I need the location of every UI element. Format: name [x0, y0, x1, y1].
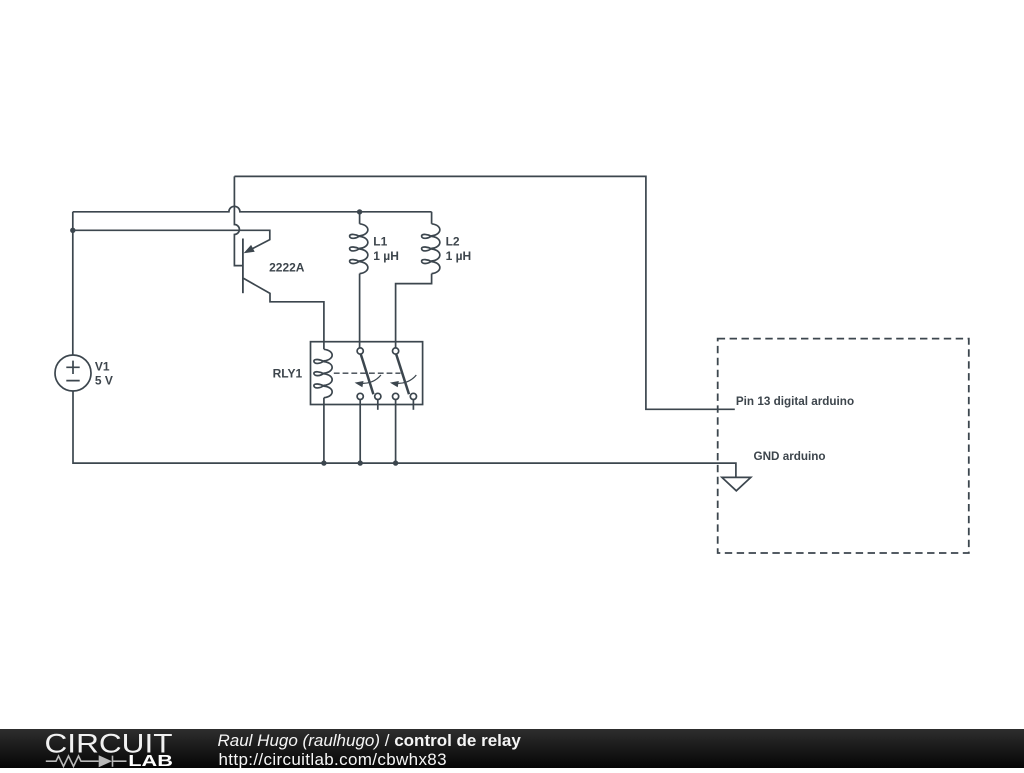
- wire relay throw 2 to ground rail: [395, 400, 397, 464]
- relay blade 1: [361, 354, 374, 394]
- wire relay coil bottom to ground rail: [323, 398, 325, 463]
- relay switch arrow 1: [360, 375, 381, 383]
- stub relay throw 1b: [377, 400, 379, 410]
- svg-text:Pin 13 digital arduino: Pin 13 digital arduino: [736, 395, 854, 408]
- svg-text:2222A: 2222A: [269, 260, 305, 274]
- junction node throw1 gnd: [358, 460, 363, 465]
- relay pole circle sw1: [357, 348, 363, 354]
- relay arrowhead 1: [355, 381, 364, 387]
- junction node coil gnd: [321, 460, 326, 465]
- junction node throw2 gnd: [393, 460, 398, 465]
- wire +5V rail with hop over base drop: [73, 206, 432, 211]
- relay RLY1 box: [311, 342, 423, 405]
- wire emitter from +5V: [73, 230, 270, 251]
- svg-text:L1: L1: [373, 235, 387, 249]
- svg-text:LAB: LAB: [128, 753, 173, 768]
- svg-text:http://circuitlab.com/cbwhx83: http://circuitlab.com/cbwhx83: [219, 750, 447, 768]
- junction node V1/+5V: [70, 228, 75, 233]
- logo diode triangle: [99, 755, 112, 767]
- relay actuation dashed line: [334, 372, 401, 374]
- stub relay throw 2b: [412, 400, 414, 410]
- relay arrowhead 2: [390, 381, 399, 387]
- svg-text:1 µH: 1 µH: [446, 249, 472, 263]
- wire net base: top wire to Pin 13 arduino: [234, 176, 734, 409]
- emitter arrowhead: [244, 245, 255, 253]
- svg-text:Raul Hugo (raulhugo) / control: Raul Hugo (raulhugo) / control de relay: [218, 731, 522, 750]
- svg-text:GND arduino: GND arduino: [754, 450, 826, 463]
- relay coil RLY1: [314, 349, 332, 397]
- relay blade 2: [396, 354, 409, 394]
- svg-text:RLY1: RLY1: [273, 367, 303, 381]
- transistor Q1 base bar: [242, 239, 244, 294]
- wire base drop with hop over emitter wire: [234, 176, 243, 265]
- junction node L1 top: [357, 209, 362, 214]
- inductor L2: [431, 212, 433, 224]
- svg-text:5 V: 5 V: [95, 374, 113, 388]
- relay throw circles: [357, 393, 363, 399]
- svg-text:1 µH: 1 µH: [373, 249, 399, 263]
- dashed annotation box arduino: [718, 339, 969, 553]
- wire relay throw 1 to ground rail: [359, 400, 361, 464]
- relay switch arrow 2: [396, 375, 417, 383]
- wire V1 top: [72, 212, 74, 355]
- relay pole circle sw2: [393, 348, 399, 354]
- ground symbol (GND arduino): [722, 477, 751, 490]
- wire V1 bottom + ground rail: [73, 391, 736, 478]
- inductor L1: [359, 212, 361, 224]
- wire collector to relay coil: [243, 278, 324, 349]
- svg-text:V1: V1: [95, 360, 110, 374]
- logo resistor + diode symbol: [46, 756, 127, 767]
- voltage source V1: [55, 355, 91, 391]
- svg-text:L2: L2: [446, 235, 460, 249]
